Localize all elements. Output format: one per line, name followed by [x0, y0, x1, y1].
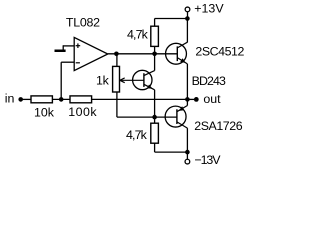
svg-text:4,7k: 4,7k — [126, 128, 148, 142]
resistor R1 10k — [31, 96, 55, 119]
wire op-amp -input to node A — [61, 62, 74, 99]
svg-text:out: out — [203, 92, 221, 106]
wire Q2 collector — [154, 54, 156, 71]
node junction R4 Q3 base — [152, 115, 157, 120]
svg-text:in: in — [5, 92, 15, 106]
resistor R4 4,7k — [126, 123, 158, 143]
node +13V junction — [185, 16, 190, 21]
wire Q1 collector — [186, 19, 188, 43]
node out terminal — [187, 92, 221, 106]
wire Q3 emitter to out node — [186, 99, 188, 105]
node in terminal — [5, 92, 23, 106]
svg-text:TL082: TL082 — [66, 15, 100, 29]
node out junction — [185, 97, 190, 102]
svg-text:4,7k: 4,7k — [127, 28, 149, 42]
wire pot wiper arrow to Q2 base — [120, 78, 144, 83]
wire R1 to node A to R2 — [52, 98, 70, 100]
svg-text:100k: 100k — [68, 105, 97, 119]
wire Q3 collector — [186, 128, 188, 152]
wire bottom rail — [155, 151, 188, 153]
svg-text:−13V: −13V — [195, 153, 222, 167]
transistor Q1 2SC4512 — [166, 42, 245, 64]
power +13V terminal — [185, 2, 224, 19]
wire R3 leads — [154, 19, 156, 54]
svg-text:10k: 10k — [34, 105, 55, 119]
wire in to R1 — [22, 98, 32, 100]
wire op-amp output to Q1 base — [108, 53, 178, 55]
svg-text:+13V: +13V — [194, 2, 224, 16]
wire pot bottom lead to PNP base line — [117, 92, 177, 117]
transistor Q2 BD243 — [133, 70, 226, 90]
wire R4 leads — [154, 117, 156, 152]
wire feedback R2 to out node — [92, 98, 188, 100]
svg-text:2SA1726: 2SA1726 — [194, 119, 242, 133]
node junction R3 Q1 base — [152, 52, 157, 57]
resistor R3 4,7k — [127, 26, 158, 46]
node A junction — [59, 97, 64, 102]
svg-text:BD243: BD243 — [192, 74, 226, 88]
svg-text:2SC4512: 2SC4512 — [195, 45, 244, 59]
wire top rail — [155, 18, 188, 20]
ground — [55, 50, 66, 53]
svg-text:1k: 1k — [96, 73, 110, 87]
power -13V terminal — [185, 152, 221, 167]
wire pot top lead — [116, 54, 118, 67]
wire Q2 emitter — [154, 90, 156, 117]
wire Q1 emitter to out — [186, 64, 188, 100]
resistor R2 100k — [68, 96, 97, 119]
potentiometer P1 1k — [96, 66, 120, 92]
node -13V junction — [185, 150, 190, 155]
wire op-amp +input — [63, 45, 74, 50]
label U1 TL082 — [66, 15, 100, 29]
op-amp U1 — [74, 37, 108, 70]
transistor Q3 2SA1726 — [165, 106, 243, 134]
node op-amp output junction — [114, 52, 119, 57]
